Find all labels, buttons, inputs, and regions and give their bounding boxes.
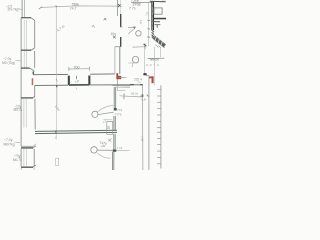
svg-text:э7.2: э7.2 xyxy=(161,0,167,3)
svg-text:0,8: 0,8 xyxy=(142,98,147,102)
svg-text:M0 (7kg): M0 (7kg) xyxy=(2,61,15,65)
svg-text:M0,7k: M0,7k xyxy=(13,158,22,162)
svg-text:700: 700 xyxy=(74,65,80,69)
svg-text:232 4: 232 4 xyxy=(134,77,142,81)
svg-text:772: 772 xyxy=(117,108,122,112)
svg-text:7 7э: 7 7э xyxy=(129,7,136,11)
svg-text:08,0э: 08,0э xyxy=(131,91,139,95)
svg-text:S: S xyxy=(107,125,110,130)
svg-text:2N-7kg: 2N-7kg xyxy=(8,8,19,12)
svg-text:74,7: 74,7 xyxy=(70,6,77,10)
svg-text:M0/7kg: M0/7kg xyxy=(4,142,15,146)
svg-text:y02: y02 xyxy=(101,144,106,148)
svg-text:7,72: 7,72 xyxy=(117,146,123,150)
svg-text:2-0 7 4: 2-0 7 4 xyxy=(146,63,159,67)
svg-text:7776: 7776 xyxy=(115,112,122,116)
svg-text:10э: 10э xyxy=(111,32,117,36)
svg-text:y7: y7 xyxy=(103,119,107,123)
